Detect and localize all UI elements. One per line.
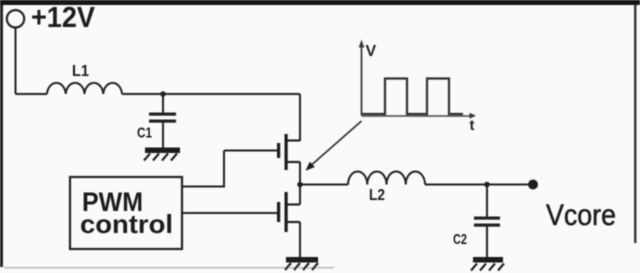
- wire C2 to output node: [486, 185, 488, 218]
- waveform axis arrowheads: [359, 40, 365, 48]
- terminal +12V input: [7, 10, 24, 27]
- wire from terminal down: [15, 28, 17, 95]
- inductor L1: [47, 83, 122, 94]
- wire down to Q1 drain: [299, 94, 301, 141]
- node A junction L1/C1: [160, 91, 166, 97]
- wire C1 to node: [162, 94, 164, 113]
- waveform PWM pulse train: [362, 79, 464, 115]
- transistor Q1 high-side MOSFET: [277, 134, 300, 170]
- wire L2 to output terminal: [425, 184, 531, 186]
- terminal Vcore output dot: [528, 180, 538, 190]
- transistor Q2 low-side MOSFET: [277, 192, 300, 232]
- svg-text:L2: L2: [369, 187, 385, 204]
- PWM control box U1: [70, 177, 182, 249]
- svg-text:Vcore: Vcore: [546, 199, 616, 232]
- capacitor C1: [149, 113, 176, 123]
- svg-text:C2: C2: [453, 231, 467, 248]
- frame top bar: [0, 0, 640, 5]
- wire switch node to L2: [300, 184, 348, 186]
- wire PWM lower output to Q2 gate: [182, 212, 277, 214]
- node B output junction: [484, 182, 490, 188]
- annotation arrow from waveform to switch node: [306, 121, 362, 171]
- svg-text:L1: L1: [72, 63, 89, 80]
- wire PWM upper output: [182, 151, 224, 187]
- waveform graph V axis: [362, 43, 473, 116]
- ground below C2: [471, 257, 504, 271]
- wire to L1: [16, 93, 48, 95]
- wire to Q1 gate: [224, 150, 277, 152]
- ground below Q2: [285, 257, 318, 270]
- wire C2 lower to ground: [486, 227, 488, 258]
- wire L1 to Q1 drain rail: [122, 93, 300, 95]
- svg-text:+12V: +12V: [31, 2, 96, 34]
- node SW switch junction: [297, 182, 303, 188]
- wire C1 lower to ground: [162, 123, 164, 149]
- svg-text:t: t: [470, 117, 475, 134]
- svg-text:C1: C1: [137, 125, 152, 142]
- ground below C1: [144, 148, 180, 161]
- svg-text:V: V: [366, 43, 377, 60]
- wire Q2 drain to switch node: [299, 185, 301, 205]
- inductor L2: [348, 171, 425, 184]
- capacitor C2: [474, 217, 500, 227]
- wire Q1 source to switch node: [299, 162, 301, 185]
- wire Q2 source down to ground: [299, 222, 301, 257]
- svg-text:control: control: [80, 209, 173, 239]
